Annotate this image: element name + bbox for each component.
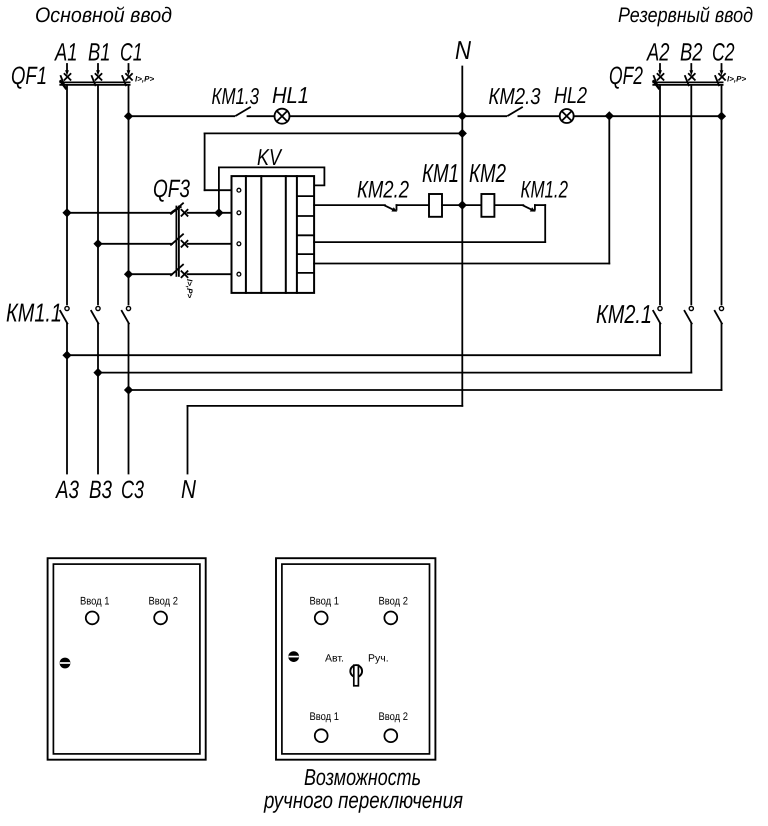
wire bus B (output phase B) <box>98 372 691 374</box>
cabinet 1 lamp 2 <box>154 612 167 625</box>
relay KV divider 2 <box>260 176 262 293</box>
wire coil KM2 to KM1.2 <box>494 204 523 206</box>
cabinet 2 bottom lamp 2 <box>384 729 397 742</box>
breaker QF2 input arrow B2 <box>689 64 693 76</box>
svg-text:А1: А1 <box>54 39 78 67</box>
cabinet 2 top lamp 2 <box>384 612 397 625</box>
cabinet 2 outer frame <box>276 558 435 760</box>
breaker QF2 pole B contact <box>685 74 695 85</box>
relay KV segment line 3 <box>297 234 314 236</box>
contactor KM2.1 pole A contact <box>653 306 662 323</box>
breaker QF3 release tick <box>173 207 181 212</box>
svg-text:КМ1.1: КМ1.1 <box>6 298 62 328</box>
junction at x609 / control line 1 <box>605 111 614 120</box>
wire QF3 pole A output to KV <box>188 212 232 214</box>
junction bus A at A1 <box>62 351 71 360</box>
contact KM2.3 (NO) <box>508 107 522 115</box>
relay KV terminal pin 2 <box>237 211 241 215</box>
relay KV segment line 2 <box>297 215 314 217</box>
junction at C2 / control line 1 <box>717 112 726 121</box>
wire control line 1 segment a <box>129 115 235 117</box>
svg-text:ручного переключения: ручного переключения <box>263 787 463 813</box>
svg-text:КМ1.2: КМ1.2 <box>521 177 569 204</box>
svg-text:Основной ввод: Основной ввод <box>35 4 172 27</box>
svg-text:Руч.: Руч. <box>368 653 389 665</box>
svg-text:КМ2.2: КМ2.2 <box>357 177 409 204</box>
wire N bottom drop <box>187 406 189 474</box>
junction at N / control line 1 <box>458 111 467 120</box>
wire control line 2 drop <box>204 133 206 190</box>
svg-text:С2: С2 <box>712 39 735 67</box>
relay KV coil loop wire (to phase A tap) <box>219 167 325 212</box>
svg-text:В2: В2 <box>680 39 703 67</box>
coil KM2 <box>481 194 494 217</box>
svg-text:А3: А3 <box>54 476 79 504</box>
wire KM1.2 branch drop <box>544 205 546 242</box>
contactor KM2.1 pole C contact <box>715 306 724 323</box>
wire coil KM1 to N <box>442 204 481 206</box>
coil KM1 <box>429 194 442 217</box>
wire phase B1 upper <box>97 85 99 304</box>
contact KM1.2 (NC with arrow) <box>523 205 535 212</box>
contactor KM1.1 pole A contact <box>60 306 69 323</box>
breaker QF1 pole A contact <box>61 74 71 85</box>
svg-text:КМ2.3: КМ2.3 <box>489 83 541 109</box>
breaker QF2 input arrow C2 <box>720 64 724 76</box>
wire QF3 pole A input <box>67 212 172 214</box>
wire QF3 pole B input <box>98 243 172 245</box>
wire phase B2 lower <box>690 324 692 373</box>
contact KM2.2 (NC with arrow) <box>385 205 397 212</box>
svg-text:КМ2.1: КМ2.1 <box>596 299 652 329</box>
svg-text:Ввод 2: Ввод 2 <box>149 596 179 608</box>
wire KM1.2 to corner <box>535 204 545 206</box>
breaker QF1 release tick <box>61 81 66 88</box>
contact KM1.3 (NO) <box>236 107 250 115</box>
relay KV body <box>232 176 315 293</box>
wire KV seg2 to KM2.2 <box>314 204 385 206</box>
cabinet 2 top lamp 1 <box>315 612 328 625</box>
breaker QF1 trip bar (double line) <box>60 82 129 85</box>
breaker QF1 pole C contact <box>122 74 132 85</box>
wire phase C1 lower <box>128 324 130 474</box>
breaker QF2 trip bar (double line) <box>653 82 722 85</box>
svg-text:В1: В1 <box>88 39 111 67</box>
cabinet 2 inner frame <box>282 564 430 754</box>
wire phase C1 upper <box>128 85 130 304</box>
junction phase B1 tap <box>93 239 102 248</box>
wire phase C2 upper <box>721 85 723 304</box>
wire phase A1 lower <box>66 324 68 474</box>
wire phase A1 upper <box>66 85 68 304</box>
wire control line 1 segment e <box>574 115 722 117</box>
breaker QF3 pole B contact <box>171 234 188 247</box>
contactor KM2.1 pole B contact <box>685 306 694 323</box>
wire QF3 pole C input <box>129 273 173 275</box>
junction phase A1 tap <box>62 208 71 217</box>
svg-text:QF3: QF3 <box>153 175 190 203</box>
wire phase A2 upper <box>659 85 661 304</box>
wire phase B2 upper <box>690 85 692 304</box>
wire N bottom horizontal <box>188 405 463 407</box>
relay KV segment line 4 <box>297 253 314 255</box>
relay KV divider 4 <box>296 176 298 293</box>
svg-text:Ввод 2: Ввод 2 <box>379 596 409 608</box>
wire bus C (output phase C) <box>129 389 722 391</box>
junction at N / coil line <box>458 201 467 210</box>
cabinet 1 door lock <box>60 658 71 669</box>
cabinet 2 door lock <box>288 651 299 662</box>
cabinet 1 inner frame <box>53 564 200 754</box>
breaker QF1 input arrow A1 <box>65 64 69 76</box>
junction at N / control line 2 <box>458 129 467 138</box>
svg-text:КМ2: КМ2 <box>469 158 506 188</box>
contactor KM1.1 pole B contact <box>91 306 100 323</box>
svg-text:HL2: HL2 <box>554 82 587 108</box>
svg-text:HL1: HL1 <box>272 82 309 108</box>
cabinet 1 outer frame <box>48 558 206 760</box>
wire KM2.2 to coil KM1 <box>397 204 430 206</box>
svg-text:КМ1: КМ1 <box>422 158 459 188</box>
junction phase C1 tap <box>124 270 133 279</box>
wire phase B1 lower <box>97 324 99 474</box>
svg-text:КМ1.3: КМ1.3 <box>212 83 260 109</box>
svg-text:Ввод 2: Ввод 2 <box>379 711 409 723</box>
wire control line 1 segment c <box>290 115 507 117</box>
wire QF3 pole B output to KV <box>188 243 232 245</box>
lamp HL1 <box>275 109 290 124</box>
breaker QF1 input arrow B1 <box>96 64 100 76</box>
svg-text:Ввод 1: Ввод 1 <box>310 711 340 723</box>
breaker QF3 pole A contact <box>171 203 188 216</box>
wire seg5 riser to control line 1 <box>608 116 610 264</box>
cabinet 2 selector switch <box>350 665 362 686</box>
breaker QF1 input arrow C1 <box>127 64 131 76</box>
wire QF3 pole C output to KV <box>188 273 232 275</box>
wire N vertical <box>461 67 463 406</box>
svg-text:А2: А2 <box>646 39 670 67</box>
svg-text:I>,P>: I>,P> <box>727 75 746 84</box>
breaker QF2 pole A contact <box>654 74 664 85</box>
breaker QF2 release tick <box>654 81 659 88</box>
svg-text:KV: KV <box>257 144 283 170</box>
svg-text:Ввод 1: Ввод 1 <box>310 596 340 608</box>
cabinet 2 bottom lamp 1 <box>315 729 328 742</box>
wire bus A (output phase A) <box>67 354 660 356</box>
svg-text:С1: С1 <box>120 39 143 67</box>
wire control line 1 segment b <box>248 115 275 117</box>
relay KV segment line 5 <box>297 272 314 274</box>
svg-text:I>,P>: I>,P> <box>135 75 154 84</box>
breaker QF3 pole C contact <box>171 265 188 278</box>
junction QF3 pole A at KV loop <box>214 208 223 217</box>
breaker QF3 trip bar (double line) <box>176 207 179 276</box>
wire control line 2 horizontal <box>205 132 463 134</box>
svg-text:С3: С3 <box>121 476 144 504</box>
svg-text:Ввод 1: Ввод 1 <box>80 596 110 608</box>
cabinet 1 lamp 1 <box>86 612 99 625</box>
svg-text:N: N <box>181 474 196 504</box>
relay KV terminal pin 4 <box>237 272 241 276</box>
breaker QF2 pole C contact <box>715 74 725 85</box>
relay KV terminal pin 1 <box>237 188 241 192</box>
svg-text:Авт.: Авт. <box>325 653 344 665</box>
wire phase A2 lower <box>659 324 661 356</box>
junction bus B at B1 <box>93 368 102 377</box>
wire control line 1 segment d <box>518 115 559 117</box>
relay KV divider 1 <box>245 176 247 293</box>
breaker QF2 input arrow A2 <box>658 64 662 76</box>
junction bus C at C1 <box>124 385 133 394</box>
relay KV terminal pin 3 <box>237 242 241 246</box>
svg-text:N: N <box>455 35 471 65</box>
svg-text:В3: В3 <box>89 476 112 504</box>
wire control line 2 to KV terminal 1 <box>205 189 232 191</box>
relay KV divider 3 <box>285 176 287 293</box>
svg-text:QF2: QF2 <box>609 62 643 90</box>
wire KM1.2 branch return to KV seg4 <box>314 241 545 243</box>
svg-text:QF1: QF1 <box>11 62 47 90</box>
contactor KM1.1 pole C contact <box>122 306 131 323</box>
junction at C1 / control line 1 <box>124 112 133 121</box>
lamp HL2 <box>560 109 574 123</box>
svg-text:I>,P>: I>,P> <box>185 279 194 298</box>
relay KV segment line 1 <box>297 195 314 197</box>
wire KV seg5 horizontal <box>314 263 609 265</box>
wire phase C2 lower <box>721 324 723 391</box>
breaker QF1 pole B contact <box>92 74 102 85</box>
svg-text:Резервный ввод: Резервный ввод <box>618 4 753 27</box>
